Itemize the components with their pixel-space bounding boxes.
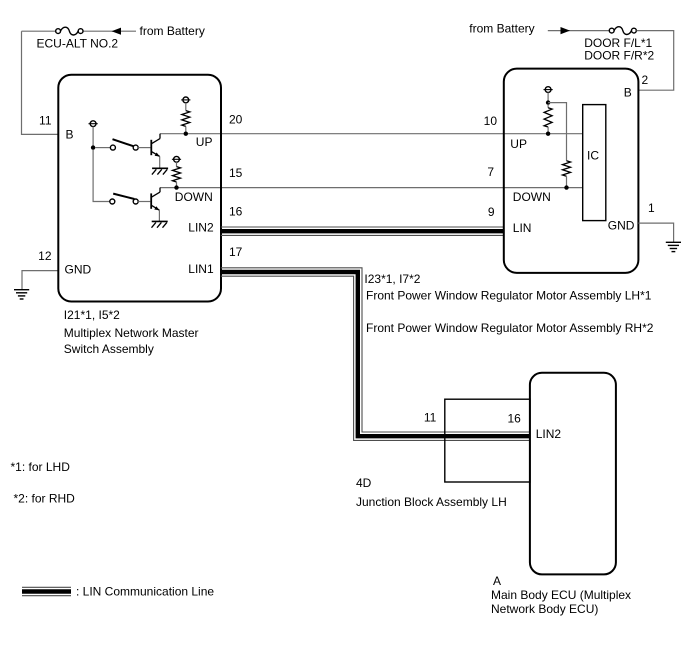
wire fuse to pin 2 — [637, 31, 674, 91]
resistor R4 (DOWN) — [563, 161, 571, 176]
wire LIN2 communication line — [221, 229, 504, 233]
connector box Front Power Window Regulator Motor Assembly — [504, 69, 639, 273]
svg-text:I21*1, I5*2: I21*1, I5*2 — [64, 308, 120, 322]
svg-text:Front Power Window Regulator M: Front Power Window Regulator Motor Assem… — [366, 289, 652, 303]
wire GND pin 1 to ground — [638, 223, 673, 242]
arrow from Battery (right) — [561, 27, 571, 34]
svg-text:15: 15 — [229, 166, 243, 180]
ground (right) — [666, 241, 681, 243]
node R1-UP junction — [184, 132, 188, 136]
svg-text:11: 11 — [424, 411, 437, 425]
svg-text:GND: GND — [65, 262, 92, 276]
wire battery feed to pin 11 — [22, 31, 58, 134]
node B feed terminal — [90, 121, 96, 127]
wire UP rail — [160, 133, 583, 135]
wire LIN1 communication line — [221, 272, 530, 436]
svg-text:1: 1 — [648, 201, 655, 215]
svg-text:20: 20 — [229, 113, 243, 127]
svg-text:12: 12 — [38, 249, 52, 263]
chassis ground Q2 — [152, 220, 168, 222]
resistor R1 (UP pull-up) — [183, 97, 189, 103]
svg-text:LIN1: LIN1 — [188, 262, 214, 276]
svg-text:17: 17 — [229, 245, 243, 259]
svg-text:IC: IC — [587, 149, 599, 163]
arrow from Battery (left) — [112, 28, 122, 35]
ground (left) — [14, 289, 29, 291]
transistor Q1 — [150, 140, 152, 155]
junction node — [91, 145, 95, 149]
wire junction to UP switch — [95, 147, 111, 149]
svg-text:16: 16 — [229, 205, 243, 219]
svg-text:4D: 4D — [356, 476, 372, 490]
wire terminal to junction (right box) — [547, 93, 549, 103]
svg-text:10: 10 — [484, 114, 498, 128]
svg-text:from Battery: from Battery — [140, 24, 205, 38]
svg-text:LIN2: LIN2 — [188, 221, 214, 235]
node battery terminal (right box) — [545, 87, 551, 93]
resistor R3 (UP) — [547, 105, 549, 108]
svg-text:9: 9 — [488, 205, 495, 219]
svg-text:I23*1, I7*2: I23*1, I7*2 — [364, 272, 420, 286]
connector box Main Body ECU — [530, 373, 616, 575]
svg-text:UP: UP — [196, 135, 213, 149]
svg-text:from Battery: from Battery — [469, 22, 534, 36]
node R2-DOWN junction — [174, 185, 178, 189]
node R4-DOWN junction — [564, 185, 568, 189]
svg-text:Multiplex Network Master: Multiplex Network Master — [64, 326, 199, 340]
connector box Multiplex Network Master Switch Assembly — [58, 75, 221, 302]
svg-text:: LIN Communication Line: : LIN Communication Line — [76, 585, 214, 599]
resistor R2 (DOWN pull-up) — [174, 156, 180, 162]
wire junction to R4 — [548, 103, 566, 161]
svg-text:LIN: LIN — [513, 221, 532, 235]
wire SW2 to Q2 base — [138, 201, 150, 203]
svg-text:LIN2: LIN2 — [536, 427, 562, 441]
svg-text:Network Body ECU): Network Body ECU) — [491, 602, 598, 616]
svg-text:DOOR F/R*2: DOOR F/R*2 — [584, 49, 654, 63]
svg-text:11: 11 — [39, 114, 52, 128]
svg-text:*1: for LHD: *1: for LHD — [11, 460, 71, 474]
wire from battery to fuse ECU-ALT NO.2 — [83, 30, 136, 32]
svg-text:A: A — [493, 574, 501, 588]
svg-text:B: B — [624, 85, 632, 99]
wire DOWN rail — [160, 187, 583, 189]
svg-text:16: 16 — [508, 411, 522, 425]
IC block — [583, 105, 606, 221]
wire battery to fuse DOOR — [548, 30, 609, 32]
wire junction to DOWN switch — [93, 150, 110, 202]
svg-text:Junction Block Assembly LH: Junction Block Assembly LH — [356, 495, 507, 509]
svg-text:Switch Assembly: Switch Assembly — [64, 342, 154, 356]
svg-text:GND: GND — [608, 219, 635, 233]
svg-text:DOWN: DOWN — [175, 190, 213, 204]
svg-text:DOWN: DOWN — [513, 190, 551, 204]
legend LIN communication line sample — [22, 589, 71, 593]
node R3-UP junction — [546, 132, 550, 136]
svg-text:7: 7 — [487, 165, 494, 179]
chassis ground Q1 — [152, 167, 168, 169]
svg-text:B: B — [66, 128, 74, 142]
junction block 4D — [445, 399, 530, 482]
switch SW2 (DOWN) — [110, 199, 115, 204]
svg-text:2: 2 — [642, 73, 649, 87]
svg-text:UP: UP — [510, 137, 527, 151]
transistor Q2 — [150, 193, 152, 208]
wire GND pin 12 to ground — [22, 271, 58, 290]
fuse DOOR F/L-F/R — [609, 28, 614, 33]
svg-text:Front Power Window Regulator M: Front Power Window Regulator Motor Assem… — [366, 321, 654, 335]
fuse ECU-ALT NO.2 — [22, 30, 56, 32]
wire terminal to junction — [92, 127, 94, 148]
junction node (right box) — [546, 100, 550, 104]
switch SW1 (UP) — [110, 145, 115, 150]
svg-text:Main Body ECU (Multiplex: Main Body ECU (Multiplex — [491, 588, 631, 602]
svg-text:*2: for RHD: *2: for RHD — [14, 492, 76, 506]
wire SW1 to Q1 base — [138, 147, 150, 149]
svg-text:ECU-ALT NO.2: ECU-ALT NO.2 — [37, 36, 119, 50]
